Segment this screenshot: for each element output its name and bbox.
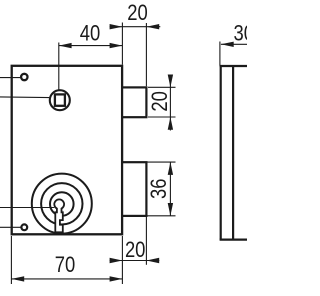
arrow top of dim 36 bbox=[168, 162, 173, 175]
follower ring (octagonal spindle boss) bbox=[50, 90, 70, 110]
lock case body (front view) bbox=[12, 66, 122, 235]
svg-text:20: 20 bbox=[125, 237, 146, 262]
screw hole (bottom) bbox=[21, 224, 27, 230]
cylinder rosette inner circle bbox=[50, 192, 74, 216]
arrow left of dim 20 top bbox=[110, 24, 123, 29]
dimension line 20 (top, latch projection) bbox=[110, 26, 161, 28]
svg-text:40: 40 bbox=[80, 20, 101, 45]
extension line latch bottom (for dim 20 right) bbox=[148, 116, 176, 118]
dimension line 20 (bottom, deadbolt projection) bbox=[110, 260, 160, 262]
dimension line 40 (follower to case edge) bbox=[59, 45, 123, 47]
dimension line 20 (right, latch height) bbox=[169, 75, 171, 131]
keyhole (round hole + notched key stem) bbox=[54, 199, 64, 232]
latch bolt (top right) bbox=[122, 87, 146, 117]
arrow right of dim 20 bottom bbox=[146, 258, 159, 263]
svg-text:30: 30 bbox=[234, 21, 248, 46]
extension line deadbolt top (for dim 36) bbox=[148, 161, 176, 163]
arrow left of dim 20 bottom bbox=[110, 258, 123, 263]
cylinder rosette middle circle bbox=[41, 183, 82, 224]
arrow right of dim 40 bbox=[110, 43, 123, 48]
arrow below dim 20 right bbox=[168, 117, 173, 130]
screw hole (top) bbox=[21, 74, 27, 80]
arrow left of dim 70 bbox=[11, 276, 24, 281]
svg-text:36: 36 bbox=[146, 179, 171, 200]
arrow above dim 20 right bbox=[168, 75, 173, 88]
dimension line 30 (side view, cropped) bbox=[221, 43, 247, 45]
extension line side view left edge (for dim 30) bbox=[219, 42, 221, 66]
extension line body right edge (for dims 70 and 20 bottom) bbox=[121, 236, 123, 284]
extension line deadbolt tip (for dim 20 bottom) bbox=[145, 217, 147, 265]
arrow bottom of dim 36 bbox=[168, 203, 173, 216]
side view top edge bbox=[220, 65, 247, 67]
leader line to keyhole bbox=[0, 207, 54, 209]
dimension line 70 (case width) bbox=[11, 278, 122, 280]
leader line to follower bbox=[0, 96, 49, 99]
cylinder rosette outer circle bbox=[32, 174, 92, 234]
follower square spindle hole bbox=[55, 94, 65, 105]
arrow right of dim 70 bbox=[110, 276, 123, 281]
leader line to top screw hole bbox=[0, 77, 20, 79]
extension line from follower centre (for dim 40) bbox=[58, 43, 60, 91]
extension line latch top (for dim 20 right) bbox=[148, 86, 176, 88]
svg-text:20: 20 bbox=[127, 0, 148, 25]
deadbolt (bottom right) bbox=[122, 162, 146, 216]
svg-text:70: 70 bbox=[55, 252, 76, 277]
extension line body right edge (for dims 40 and 20 top) bbox=[121, 23, 123, 65]
extension line latch tip (for dim 20 top) bbox=[145, 23, 147, 86]
dimension line 36 (deadbolt height) bbox=[169, 162, 171, 216]
arrow right of dim 20 top bbox=[146, 24, 159, 29]
extension line deadbolt bottom (for dim 36) bbox=[148, 215, 176, 217]
arrow left of dim 30 bbox=[221, 42, 234, 47]
extension line body left edge (for dim 70) bbox=[10, 236, 12, 284]
leader line to bottom screw hole bbox=[0, 226, 21, 228]
side view faceplate left edge bbox=[220, 66, 222, 240]
svg-text:20: 20 bbox=[147, 91, 172, 112]
side view bottom edge bbox=[220, 239, 247, 241]
side view case line bbox=[232, 66, 234, 240]
arrow left of dim 40 bbox=[59, 43, 72, 48]
